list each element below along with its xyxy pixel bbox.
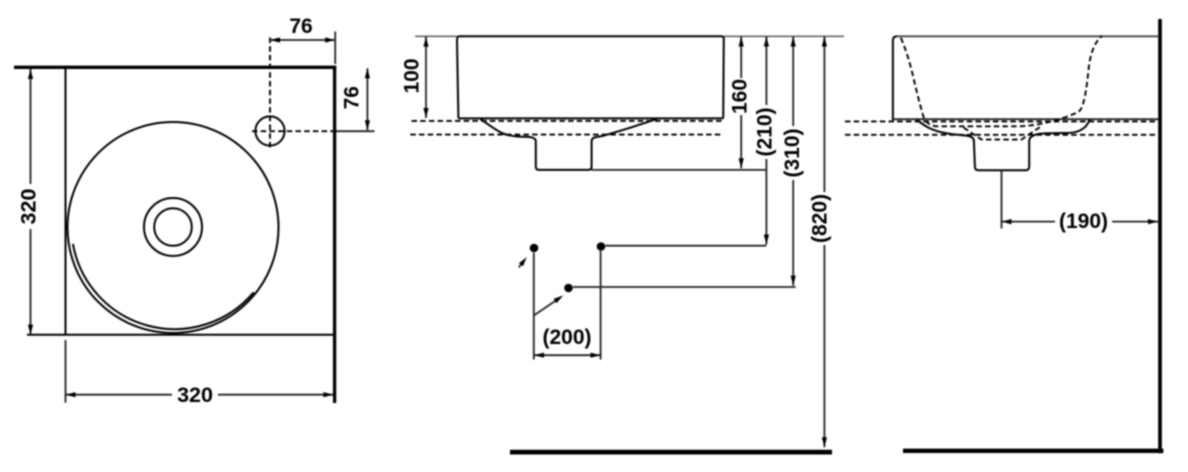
extension line for top 76 dim bbox=[334, 32, 336, 65]
basin outline front bbox=[457, 36, 724, 118]
dimension 76 (top) bbox=[270, 15, 335, 43]
under-basin profile with drain pipe (front) bbox=[480, 119, 658, 170]
dimension 100 (left of front view) bbox=[401, 37, 429, 118]
dimension (310) bbox=[781, 37, 804, 286]
drain outer circle bbox=[144, 198, 202, 256]
svg-text:320: 320 bbox=[177, 383, 213, 407]
counter dashed line lower bbox=[410, 134, 723, 136]
extension line right of basin top bbox=[724, 35, 844, 37]
svg-text:(820): (820) bbox=[809, 194, 832, 243]
svg-text:320: 320 bbox=[17, 189, 41, 225]
under-basin profile with drain pipe (side) bbox=[917, 119, 1090, 170]
svg-text:(310): (310) bbox=[781, 128, 804, 177]
basin top edge (side) bbox=[897, 35, 1158, 37]
extension line below dot A bbox=[533, 253, 535, 360]
inner bowl dashed outline (side) bbox=[901, 36, 1102, 126]
faucet hole horizontal centerline (dashed) bbox=[252, 130, 336, 132]
bowl outer circle bbox=[68, 122, 279, 333]
svg-text:(200): (200) bbox=[542, 326, 591, 349]
dimension (820) bbox=[809, 37, 832, 448]
dimension (190) bbox=[1002, 210, 1159, 233]
bowl inner rim circle bbox=[73, 244, 254, 329]
counter dashed line lower (side) bbox=[845, 134, 1158, 136]
svg-text:160: 160 bbox=[729, 79, 752, 114]
basin square left edge bbox=[65, 68, 67, 335]
svg-text:(190): (190) bbox=[1059, 210, 1108, 233]
counter dashed line upper (side) bbox=[845, 120, 1158, 122]
counter surface line (side) bbox=[893, 118, 1158, 120]
dimension (200) bbox=[534, 326, 601, 358]
extension line from pipe bottom to (210) line bbox=[592, 169, 767, 171]
extension line left of basin top bbox=[415, 35, 457, 37]
floor line (middle) bbox=[510, 450, 832, 455]
dimension (210) bbox=[754, 37, 777, 245]
faucet hole bbox=[255, 116, 284, 145]
counter top edge (thick) bbox=[14, 66, 336, 69]
dimension 320 (left, vertical) bbox=[17, 69, 41, 335]
dimension 160 bbox=[729, 37, 752, 169]
line from dot C to (310) bbox=[573, 286, 796, 288]
basin square bottom edge bbox=[27, 334, 334, 336]
basin left edge (side) bbox=[893, 36, 897, 120]
floor line (right) bbox=[903, 449, 1163, 453]
dimension 320 (bottom) bbox=[66, 383, 334, 407]
leader arrow to dot C bbox=[534, 295, 564, 315]
mounting hole dot A bbox=[530, 244, 539, 253]
svg-text:76: 76 bbox=[289, 15, 312, 38]
drain center line bbox=[1001, 170, 1003, 228]
small leader arrow at dot A bbox=[519, 257, 527, 268]
wall (thick vertical) bbox=[1158, 19, 1162, 453]
svg-text:76: 76 bbox=[341, 86, 364, 109]
faucet hole vertical centerline (dashed) bbox=[269, 38, 271, 150]
dimension 76 (right side, vertical) bbox=[341, 68, 371, 130]
extension line below dot B bbox=[600, 251, 602, 360]
counter right edge (thick) bbox=[333, 66, 336, 403]
extension line right of hole centerline bbox=[336, 130, 375, 132]
mounting hole dot B bbox=[597, 242, 606, 251]
extension line below square (left 320) bbox=[65, 340, 67, 403]
svg-text:100: 100 bbox=[401, 58, 424, 93]
basin bottom line front bbox=[458, 117, 723, 119]
counter dashed line upper bbox=[412, 120, 724, 122]
drain inner circle bbox=[154, 208, 192, 246]
svg-text:(210): (210) bbox=[754, 107, 777, 156]
inner drain dashed funnel (side) bbox=[964, 127, 1041, 140]
mounting hole dot C bbox=[564, 284, 573, 293]
line from dot B to (210) bbox=[606, 245, 767, 247]
